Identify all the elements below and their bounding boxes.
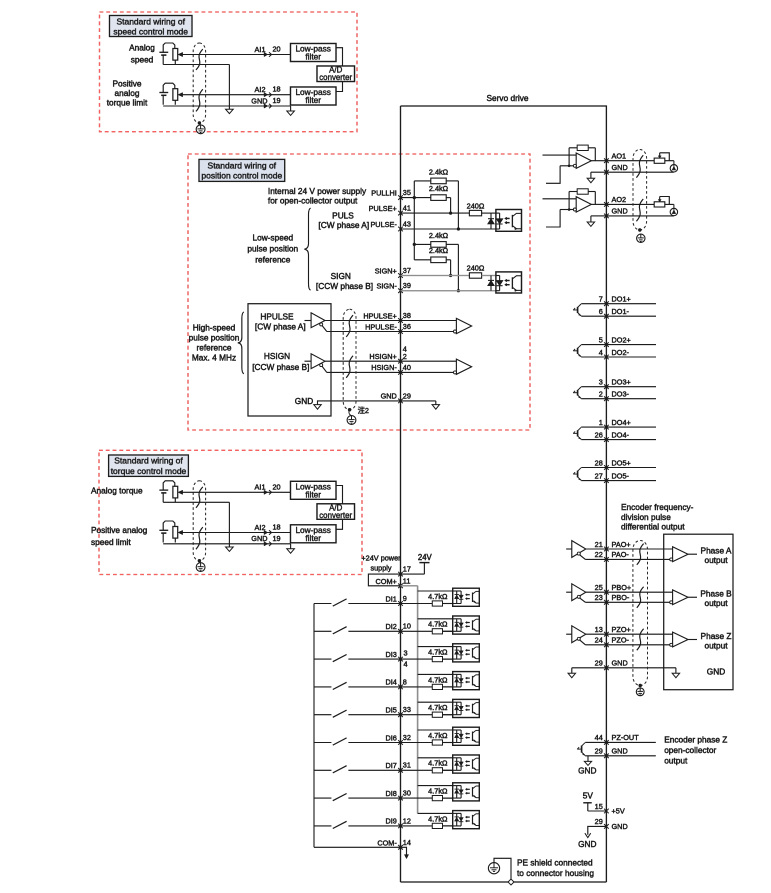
wire DO4- external: [606, 439, 656, 441]
opto common DI9: [418, 812, 453, 814]
pin PBO+: [595, 583, 631, 595]
label GND bottom: [578, 839, 596, 849]
pin DI8 30: [385, 789, 410, 801]
svg-text:Positive analog: Positive analog: [91, 525, 148, 535]
svg-text:Encoder frequency-: Encoder frequency-: [621, 502, 694, 512]
svg-text:8: 8: [403, 677, 407, 686]
svg-text:19: 19: [273, 534, 281, 543]
svg-text:GND: GND: [578, 766, 596, 776]
title box: speed control mode: [110, 16, 193, 37]
wire 240 to opto2: [482, 275, 496, 277]
wire AI2: [182, 94, 290, 96]
svg-text:4: 4: [404, 659, 408, 668]
pin GND 29: [381, 391, 411, 403]
opto common DI8: [418, 785, 453, 787]
wire AO2 external: [606, 203, 673, 205]
driver PAO: [566, 541, 586, 560]
wire DO2- external: [606, 356, 656, 358]
svg-text:5V: 5V: [583, 791, 594, 801]
pin PAO+: [595, 540, 631, 552]
wire R2 to PULSE+: [446, 198, 452, 215]
twisted pair HSIGN: [346, 356, 353, 378]
wire +5V internal: [588, 810, 607, 812]
transistor DO3: [573, 387, 581, 398]
svg-text:4.7kΩ: 4.7kΩ: [428, 759, 448, 768]
label Servo drive: [487, 93, 529, 103]
COM- internal stub: [401, 847, 409, 858]
label AI1: [255, 45, 266, 54]
wire DO5- external: [606, 480, 656, 482]
svg-text:HPULSE: HPULSE: [260, 312, 294, 322]
svg-text:43: 43: [403, 219, 411, 228]
pin COM- 14: [398, 838, 411, 850]
optocoupler DI7: [443, 755, 480, 773]
wire pot1 bottom rail: [163, 64, 229, 66]
label 5V: [583, 791, 594, 801]
pin AI2 mark: [264, 93, 272, 97]
wire DO1+ internal: [581, 303, 606, 305]
pin DO4-: [595, 430, 630, 442]
svg-text:4.7kΩ: 4.7kΩ: [428, 731, 448, 740]
pin DI1 9: [385, 594, 406, 606]
label HSIGN [CCW phase B]: [252, 351, 309, 372]
optocoupler DI9: [443, 811, 480, 829]
optocoupler DI5: [443, 699, 480, 717]
wire GND internal AO2: [591, 215, 607, 217]
svg-text:18: 18: [273, 85, 281, 94]
wire DO5- internal: [581, 480, 606, 482]
wire PBO+ external: [606, 591, 672, 593]
wire enc GND external: [606, 667, 676, 669]
opto common DI6: [418, 729, 453, 731]
label 4.7kohm DI4: [428, 675, 448, 684]
label Phase A output: [701, 546, 732, 566]
receiver Phase A: [670, 547, 697, 562]
resistor 240ohm (PULSE): [469, 210, 481, 215]
wire resistor to opto DI4: [443, 686, 453, 688]
twisted pair PAO: [637, 544, 644, 565]
svg-text:DI1: DI1: [385, 594, 396, 603]
5V supply bar: [583, 803, 591, 811]
wire GND external AO1: [606, 171, 673, 173]
svg-text:4.7kΩ: 4.7kΩ: [428, 648, 448, 657]
svg-text:Standard wiring of: Standard wiring of: [116, 16, 185, 26]
wire PULSE-: [401, 228, 496, 230]
label COM-: [377, 839, 397, 848]
svg-text:4.7kΩ: 4.7kΩ: [428, 592, 448, 601]
optocoupler DI3: [443, 644, 480, 662]
wire PZ GND internal: [585, 755, 606, 757]
svg-text:13: 13: [595, 625, 603, 634]
wire SIGN+: [401, 275, 470, 277]
svg-text:DO5-: DO5-: [612, 471, 630, 480]
pin DI3 34 stacked: [385, 649, 407, 669]
svg-text:output: output: [704, 598, 728, 608]
shield cable (analog): [193, 481, 205, 561]
resistor 240ohm (SIGN): [469, 273, 481, 278]
svg-text:24: 24: [595, 636, 603, 645]
wire AO1 external: [606, 160, 673, 162]
resistor 4.7k DI8: [432, 796, 442, 801]
svg-text:25: 25: [595, 583, 603, 592]
svg-text:3: 3: [599, 378, 603, 387]
svg-text:30: 30: [403, 789, 411, 798]
svg-text:speed: speed: [131, 55, 154, 65]
resistor 4.7k DI4: [432, 684, 442, 689]
svg-text:2: 2: [403, 352, 407, 361]
label 4.7kohm DI7: [428, 759, 448, 768]
switch DI4: [314, 682, 401, 689]
svg-text:PULS: PULS: [332, 211, 354, 221]
label 4.7kohm DI2: [428, 620, 448, 629]
wire DI5 to resistor: [401, 714, 433, 716]
svg-text:GND: GND: [612, 659, 628, 668]
title box: position control mode: [199, 159, 285, 181]
transistor DO2: [573, 345, 581, 357]
svg-text:torque control mode: torque control mode: [111, 466, 187, 476]
wire PULSE+: [401, 212, 470, 214]
svg-text:GND: GND: [612, 747, 628, 756]
svg-text:Standard wiring of: Standard wiring of: [208, 160, 277, 170]
title box: torque control mode: [109, 455, 189, 476]
ground AO2: [587, 216, 594, 227]
label Analog speed: [129, 43, 155, 65]
svg-text:division pulse: division pulse: [621, 512, 671, 522]
wire LPF2 to A/D: [336, 519, 343, 529]
label 4.7kohm DI8: [428, 787, 448, 796]
svg-text:17: 17: [403, 565, 411, 574]
wire R3 to SIGN-: [446, 244, 460, 292]
svg-text:4.7kΩ: 4.7kΩ: [428, 675, 448, 684]
svg-text:DO4+: DO4+: [612, 418, 631, 427]
wire 240 to opto1: [482, 212, 496, 214]
svg-text:DO3-: DO3-: [612, 390, 630, 399]
low-pass filter box 1: [291, 481, 337, 499]
A/D converter box: [317, 66, 355, 83]
wire resistor to opto DI1: [443, 603, 453, 605]
analog source potentiometer (lower) dy=437.8: [159, 521, 182, 543]
svg-text:28: 28: [595, 458, 603, 467]
svg-text:41: 41: [403, 204, 411, 213]
driver PBO: [566, 584, 586, 603]
svg-text:22: 22: [595, 550, 603, 559]
pin DI4 8: [385, 677, 406, 689]
low-pass filter box 2: [291, 525, 337, 543]
wire DO3+ external: [606, 386, 656, 388]
label HPULSE [CW phase A]: [255, 312, 306, 332]
label 2.4kohm R2: [429, 184, 449, 193]
twisted pair AO2: [636, 199, 643, 221]
svg-text:to connector housing: to connector housing: [517, 868, 594, 878]
pin HPULSE- 36: [365, 322, 411, 334]
meter AO2: [670, 204, 677, 215]
svg-text:GND: GND: [295, 396, 313, 406]
wire PZO+ external: [606, 633, 672, 635]
svg-text:36: 36: [403, 322, 411, 331]
wire HSIGN-: [327, 371, 401, 373]
label 4.7kohm DI9: [428, 814, 448, 823]
svg-text:AI1: AI1: [255, 483, 266, 492]
twisted pair AI1: [196, 487, 203, 508]
wire DI8 to resistor: [401, 797, 433, 799]
A/D converter box: [317, 503, 355, 520]
svg-text:DO2-: DO2-: [612, 348, 630, 357]
svg-text:+5V: +5V: [612, 807, 625, 816]
twisted pair AI2: [196, 527, 203, 549]
pin AI2 mark: [264, 530, 272, 534]
svg-text:HPULSE-: HPULSE-: [365, 322, 397, 331]
svg-text:filter: filter: [305, 489, 321, 499]
pin GND mark: [264, 542, 272, 546]
pin number 20: [273, 482, 281, 491]
label Encoder frequency-division pulse differential output: [621, 502, 694, 532]
svg-text:HSIGN: HSIGN: [264, 351, 290, 361]
pin DO5-: [595, 471, 630, 483]
svg-text:open-collector: open-collector: [664, 745, 716, 755]
wire PAO- internal: [585, 558, 606, 560]
receiver Phase B: [670, 590, 697, 605]
wire COM- row: [314, 846, 401, 848]
svg-text:2: 2: [599, 390, 603, 399]
pin SIGN+ 37: [375, 266, 411, 278]
label AI2: [255, 85, 266, 94]
wire PAO+ external: [606, 548, 672, 550]
cable shield PE (AO): [637, 234, 645, 242]
svg-text:DO3+: DO3+: [612, 378, 631, 387]
pin DI2 10: [385, 622, 410, 634]
cable shield dot (enc): [639, 684, 642, 687]
label Internal 24V power supply: [268, 186, 367, 205]
svg-text:output: output: [704, 640, 728, 650]
wire GND internal AO1: [591, 171, 607, 173]
wire DO1- external: [606, 315, 656, 317]
svg-text:supply: supply: [370, 563, 391, 572]
wire GND 29: [318, 400, 401, 402]
svg-text:PBO-: PBO-: [612, 593, 630, 602]
label Analog torque: [91, 485, 143, 495]
twisted pair AI1: [196, 49, 203, 70]
svg-text:High-speed: High-speed: [193, 323, 236, 333]
svg-text:1: 1: [599, 418, 603, 427]
svg-text:PZO-: PZO-: [612, 636, 630, 645]
label High-speed pulse position reference: [189, 323, 240, 363]
svg-text:HSIGN-: HSIGN-: [371, 363, 397, 372]
wire DI1 to resistor: [401, 603, 433, 605]
receiver Phase Z: [670, 632, 697, 647]
pin PZ-OUT 44: [595, 733, 640, 745]
svg-text:converter: converter: [319, 511, 352, 520]
svg-text:pulse position: pulse position: [189, 333, 240, 343]
svg-text:SIGN-: SIGN-: [377, 282, 398, 291]
optocoupler (PULSE): [488, 210, 522, 232]
svg-text:GND: GND: [381, 392, 397, 401]
svg-text:SIGN: SIGN: [331, 271, 351, 281]
wire GND bottom internal: [588, 826, 607, 834]
op-amp AO2: [543, 189, 607, 227]
svg-text:44: 44: [595, 733, 603, 742]
optocoupler DI2: [443, 616, 480, 634]
receiver HSIGN internal: [401, 359, 472, 374]
label AI2: [255, 523, 266, 532]
wire R1 left leg: [413, 181, 431, 199]
ground (hs box): [314, 400, 321, 409]
driver PZO: [566, 626, 586, 645]
wire pot1 ground drop: [228, 502, 230, 547]
label Positive analog torque limit: [107, 78, 148, 107]
svg-text:23: 23: [595, 593, 603, 602]
svg-text:GND: GND: [251, 96, 267, 105]
svg-text:DO5+: DO5+: [612, 458, 631, 467]
svg-text:DO1-: DO1-: [612, 307, 630, 316]
cable shield PE: [196, 561, 205, 572]
svg-text:AO1: AO1: [612, 152, 627, 161]
wire resistor to opto DI2: [443, 630, 453, 632]
svg-text:filter: filter: [305, 533, 321, 543]
ground enc GND right: [672, 668, 679, 678]
cable shield PE (enc): [636, 688, 644, 696]
brace high-speed group: [238, 312, 244, 374]
pin GND 29 (encoder): [595, 659, 628, 671]
svg-text:DI6: DI6: [385, 733, 396, 742]
wire DO4- internal: [581, 439, 606, 441]
svg-text:2.4kΩ: 2.4kΩ: [429, 231, 449, 240]
svg-text:DI5: DI5: [385, 706, 396, 715]
label PULS [CW phase A]: [318, 211, 369, 231]
resistor 4.7k DI7: [432, 768, 442, 773]
svg-text:GND: GND: [578, 839, 596, 849]
label 2.4kohm R3: [429, 231, 449, 240]
pin AO2: [604, 195, 626, 207]
svg-text:DI9: DI9: [385, 817, 396, 826]
svg-text:torque limit: torque limit: [107, 97, 148, 107]
pin GND mark: [264, 104, 272, 108]
cable shield dot: [198, 121, 201, 124]
twisted pair PZO: [637, 629, 644, 650]
cable shield PE: [196, 123, 205, 134]
svg-text:AI2: AI2: [255, 85, 266, 94]
wire DI6 to resistor: [401, 742, 433, 744]
twisted pair AO1: [636, 155, 643, 177]
pin PULLHI 35: [371, 188, 411, 200]
brace low-speed group: [304, 208, 310, 290]
label 24V: [418, 553, 433, 562]
svg-text:33: 33: [403, 705, 411, 714]
analog source potentiometer (upper) dy=0: [159, 43, 182, 65]
svg-text:Analog torque: Analog torque: [91, 485, 143, 495]
svg-text:Standard wiring of: Standard wiring of: [114, 456, 183, 466]
svg-text:position control mode: position control mode: [201, 170, 282, 180]
svg-text:filter: filter: [305, 95, 321, 105]
svg-text:29: 29: [595, 659, 603, 668]
label SIGN [CCW phase B]: [316, 271, 373, 291]
optocoupler DI1: [443, 588, 480, 606]
driver HPULSE: [305, 313, 327, 332]
shield cable (AO): [633, 150, 647, 231]
ground (GND pin internal): [287, 106, 295, 115]
wire HSIGN+: [325, 360, 401, 362]
wire DI3 to resistor: [401, 658, 433, 660]
svg-text:DI4: DI4: [385, 678, 396, 687]
svg-text:20: 20: [273, 45, 281, 54]
svg-text:24V: 24V: [418, 553, 433, 562]
svg-text:7: 7: [599, 295, 603, 304]
svg-text:PAO-: PAO-: [612, 550, 630, 559]
wire enc GND internal: [572, 667, 607, 669]
svg-text:for open-collector output: for open-collector output: [268, 195, 358, 205]
opto common DI1: [418, 590, 453, 592]
opto common DI3: [418, 646, 453, 648]
wire resistor to opto DI5: [443, 714, 453, 716]
pin HSIGN+ 42 stacked: [369, 344, 406, 363]
svg-text:10: 10: [403, 622, 411, 631]
svg-text:GND: GND: [612, 207, 628, 216]
analog source potentiometer (lower) dy=0: [159, 83, 182, 105]
svg-text:29: 29: [595, 817, 603, 826]
svg-text:40: 40: [403, 363, 411, 372]
svg-text:15: 15: [595, 802, 603, 811]
pin PBO-: [595, 593, 630, 605]
dashed frame: position control mode: [188, 154, 530, 430]
svg-text:+24V power: +24V power: [361, 553, 401, 562]
svg-text:PAO+: PAO+: [612, 540, 631, 549]
wire AI2: [182, 532, 290, 534]
wire resistor to opto DI3: [443, 658, 453, 660]
ground (analog common): [226, 547, 234, 551]
wire DI9 to resistor: [401, 825, 433, 827]
PE shield symbol: [488, 858, 514, 885]
svg-text:AI2: AI2: [255, 523, 266, 532]
wire DO2+ internal: [581, 344, 606, 346]
label Phase B output: [700, 589, 732, 609]
wire resistor to opto DI6: [443, 742, 453, 744]
svg-text:9: 9: [403, 594, 407, 603]
pin DO2+: [599, 335, 631, 347]
pin PAO-: [595, 550, 630, 562]
svg-text:GND: GND: [251, 534, 267, 543]
analog source potentiometer (upper) dy=437.8: [159, 481, 182, 503]
opto common DI5: [418, 701, 453, 703]
switch DI6: [314, 738, 401, 745]
svg-text:240Ω: 240Ω: [467, 201, 485, 210]
meter AO1: [670, 161, 677, 172]
pin SIGN- 39: [377, 281, 411, 293]
wire PULLHI: [401, 197, 431, 199]
pin number 18: [273, 523, 281, 532]
resistor 2.4k R4: [414, 257, 446, 263]
switch DI2: [314, 627, 401, 634]
wire PBO+ internal: [586, 591, 607, 593]
svg-text:[CCW phase B]: [CCW phase B]: [316, 281, 373, 291]
svg-text:reference: reference: [196, 343, 231, 353]
label GND (PZ): [578, 766, 596, 776]
resistor 2.4k R2 (on PULLHI row): [431, 195, 446, 201]
svg-text:PE shield connected: PE shield connected: [517, 858, 593, 868]
wire PAO- external: [606, 558, 672, 560]
wire PAO+ internal: [586, 548, 607, 550]
svg-text:38: 38: [403, 311, 411, 320]
high-speed block box: [248, 304, 331, 416]
phase output box: [664, 534, 733, 690]
wire DI4 to resistor: [401, 686, 433, 688]
pin GND (AO2): [604, 207, 628, 219]
svg-text:output: output: [664, 756, 688, 766]
label GND (phase box): [707, 667, 725, 677]
label Phase Z output: [701, 631, 732, 651]
wire 24V branch down: [413, 198, 416, 260]
wire DO3- internal: [581, 398, 606, 400]
svg-text:PULLHI: PULLHI: [371, 188, 397, 197]
label 4.7kohm DI5: [428, 703, 448, 712]
